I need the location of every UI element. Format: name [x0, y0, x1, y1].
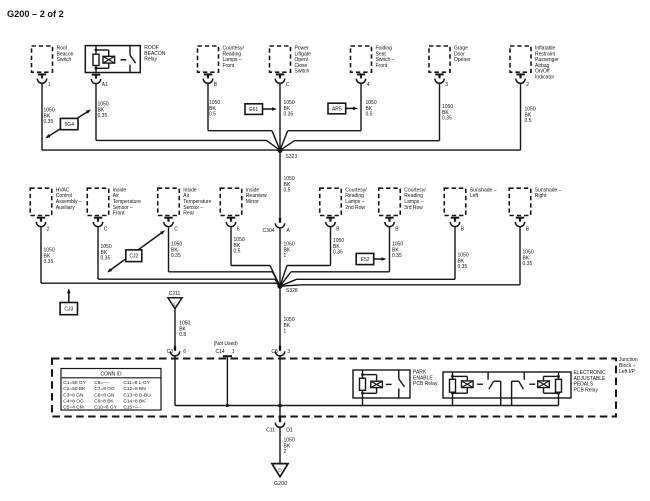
- svg-text:Mirror: Mirror: [246, 199, 259, 205]
- svg-text:C: C: [174, 226, 178, 232]
- svg-text:Relay: Relay: [144, 57, 157, 63]
- svg-text:C3: C3: [167, 349, 174, 355]
- svg-text:PCB Relay: PCB Relay: [413, 381, 438, 387]
- svg-text:1: 1: [48, 82, 51, 88]
- svg-text:C9=8 BK: C9=8 BK: [94, 399, 114, 405]
- svg-text:C14: C14: [216, 349, 225, 355]
- svg-text:3: 3: [445, 82, 448, 88]
- svg-text:C7=8 OG: C7=8 OG: [94, 386, 115, 392]
- svg-text:C11=8 L-GY: C11=8 L-GY: [123, 380, 150, 386]
- svg-text:2nd Row: 2nd Row: [345, 205, 365, 211]
- svg-text:1: 1: [284, 329, 287, 335]
- svg-text:0.8: 0.8: [179, 332, 186, 338]
- svg-text:0.5: 0.5: [209, 112, 216, 118]
- svg-text:0.5: 0.5: [366, 112, 373, 118]
- svg-text:Front: Front: [376, 63, 388, 69]
- svg-text:Right: Right: [535, 193, 547, 199]
- svg-text:C4=8 OG: C4=8 OG: [63, 399, 84, 405]
- svg-text:C15=----: C15=----: [123, 405, 141, 411]
- svg-text:0.35: 0.35: [44, 259, 54, 265]
- svg-text:3rd Row: 3rd Row: [404, 205, 423, 211]
- svg-text:C13=8 D-BU: C13=8 D-BU: [123, 392, 151, 398]
- svg-text:C: C: [104, 226, 108, 232]
- svg-text:C304: C304: [263, 228, 275, 234]
- svg-text:5G4: 5G4: [64, 122, 74, 128]
- svg-text:1: 1: [284, 253, 287, 259]
- svg-text:S323: S323: [286, 154, 298, 160]
- svg-text:C211: C211: [169, 291, 181, 297]
- svg-text:0.35: 0.35: [171, 253, 181, 259]
- svg-text:S328: S328: [286, 288, 298, 294]
- svg-text:0.35: 0.35: [458, 264, 468, 270]
- svg-text:C12=8 BN: C12=8 BN: [123, 386, 146, 392]
- svg-text:PCB Relay: PCB Relay: [574, 388, 599, 394]
- svg-text:Rear: Rear: [183, 211, 194, 217]
- svg-text:6: 6: [183, 349, 186, 355]
- svg-text:0.35: 0.35: [333, 250, 343, 256]
- svg-text:C14=8 BK: C14=8 BK: [123, 399, 146, 405]
- svg-text:E52: E52: [360, 257, 369, 263]
- svg-text:CONN ID: CONN ID: [100, 372, 122, 378]
- svg-text:C8=8 GN: C8=8 GN: [94, 392, 115, 398]
- svg-text:6: 6: [237, 226, 240, 232]
- svg-text:Indicator: Indicator: [535, 75, 555, 81]
- svg-text:0.5: 0.5: [234, 249, 241, 255]
- svg-text:Left: Left: [470, 193, 479, 199]
- svg-text:0.35: 0.35: [44, 119, 54, 125]
- svg-text:C: C: [286, 82, 290, 88]
- svg-text:3: 3: [287, 349, 290, 355]
- svg-text:C1=50 GY: C1=50 GY: [63, 380, 86, 386]
- svg-text:0.35: 0.35: [523, 261, 533, 267]
- svg-text:0.35: 0.35: [442, 116, 452, 122]
- svg-text:Switch: Switch: [57, 57, 72, 63]
- svg-text:Auxiliary: Auxiliary: [56, 205, 75, 211]
- svg-text:Front: Front: [113, 211, 125, 217]
- svg-text:C3=8 GN: C3=8 GN: [63, 392, 84, 398]
- svg-text:Opener: Opener: [454, 57, 471, 63]
- svg-text:2: 2: [526, 82, 529, 88]
- svg-text:C10=8 GY: C10=8 GY: [94, 405, 117, 411]
- svg-text:CJ2: CJ2: [129, 254, 138, 260]
- svg-text:Left I/P: Left I/P: [619, 369, 636, 375]
- svg-text:0.35: 0.35: [392, 253, 402, 259]
- svg-text:Front: Front: [223, 63, 235, 69]
- svg-text:2: 2: [284, 449, 287, 455]
- svg-text:C11: C11: [266, 428, 275, 434]
- svg-text:4: 4: [367, 82, 370, 88]
- svg-text:1: 1: [232, 349, 235, 355]
- svg-text:0.35: 0.35: [284, 112, 294, 118]
- svg-text:C8: C8: [271, 349, 278, 355]
- svg-text:Switch: Switch: [295, 69, 310, 75]
- svg-text:2: 2: [47, 226, 50, 232]
- svg-text:C2=50 BK: C2=50 BK: [63, 386, 86, 392]
- svg-text:G200: G200: [274, 481, 287, 487]
- svg-text:(Not Used): (Not Used): [214, 341, 239, 347]
- svg-text:0.5: 0.5: [284, 188, 291, 194]
- svg-text:G200 – 2 of 2: G200 – 2 of 2: [7, 9, 64, 19]
- svg-text:CJ3: CJ3: [64, 307, 73, 313]
- svg-text:0.35: 0.35: [101, 256, 111, 262]
- svg-text:AR5: AR5: [332, 106, 342, 112]
- svg-text:E61: E61: [249, 107, 258, 113]
- svg-text:C5=4 CM: C5=4 CM: [63, 405, 83, 411]
- svg-text:A1: A1: [102, 82, 108, 88]
- svg-text:0.35: 0.35: [98, 113, 108, 119]
- svg-text:0.5: 0.5: [525, 118, 532, 124]
- svg-text:D1: D1: [286, 428, 293, 434]
- svg-text:C6=----: C6=----: [94, 380, 110, 386]
